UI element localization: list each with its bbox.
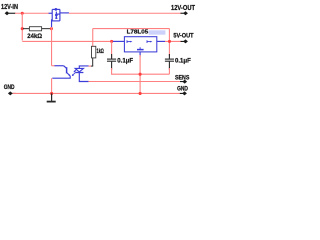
wire C2 bottom to gnd rail bbox=[168, 68, 170, 74]
transistor Q1 bulk dot top bbox=[55, 8, 58, 11]
svg-text:SENS: SENS bbox=[175, 74, 189, 81]
capacitor C2 0.1uF output bbox=[165, 54, 174, 70]
resistor R1 24k body bbox=[29, 27, 41, 31]
collector diagonal bbox=[64, 66, 67, 69]
svg-text:5V-OUT: 5V-OUT bbox=[173, 32, 193, 39]
transistor Q1 bulk arrow up bbox=[55, 16, 58, 19]
light arrow 2 bbox=[73, 73, 75, 75]
svg-text:24kΩ: 24kΩ bbox=[27, 33, 42, 40]
wire vertical to 24k left bbox=[21, 13, 23, 40]
wire top rail right (mosfet to 12V-OUT) bbox=[69, 12, 182, 14]
node junction 5V / C2 bbox=[168, 40, 171, 43]
optocoupler U2 LED bbox=[75, 66, 88, 82]
gate drop lead bbox=[51, 19, 53, 27]
capacitor C1 0.1uF input bbox=[107, 42, 116, 70]
cathode down lead bbox=[79, 73, 88, 82]
optocoupler U2 phototransistor bbox=[52, 66, 70, 78]
ground symbol bbox=[47, 93, 56, 101]
pin 12V-IN diamond bbox=[5, 11, 16, 15]
wire top rail left (12V-IN to mosfet) bbox=[15, 12, 49, 14]
svg-text:L78L05: L78L05 bbox=[127, 30, 149, 36]
pin 5V-OUT diamond bbox=[181, 39, 188, 43]
wire 1k bottom to LED anode bbox=[88, 65, 91, 67]
drain lead bbox=[60, 12, 69, 14]
pin GND left diamond bbox=[8, 91, 16, 95]
resistor R2 1k body bbox=[92, 46, 96, 58]
wire C1 bottom to gnd rail bbox=[112, 68, 170, 74]
IC U1 output pin stub bbox=[157, 40, 165, 42]
cathode bar bbox=[75, 72, 83, 74]
emitter wire down and west bbox=[52, 76, 70, 78]
IC U1 pale highlight box bbox=[149, 30, 166, 34]
anode wire from 1k node bbox=[79, 66, 88, 69]
middle bar bbox=[55, 12, 57, 19]
bottom line bbox=[52, 20, 60, 22]
svg-text:12V-IN: 12V-IN bbox=[1, 2, 18, 11]
emitter arrowhead bbox=[68, 74, 70, 76]
wire drop rail B right to 5V wire / C2 bbox=[168, 29, 170, 56]
node junction gnd rail / IC gnd bbox=[139, 73, 142, 76]
resistor R2 bottom lead bbox=[91, 58, 94, 66]
IC U1 input arrow glyph bbox=[127, 40, 132, 43]
wire 5V output to diamond bbox=[165, 40, 182, 42]
node junction C1 top / IC input bbox=[110, 40, 113, 43]
wire collector horizontal red part bbox=[52, 65, 55, 67]
pin GND right diamond bbox=[180, 91, 187, 95]
transistor Q1 P-MOSFET bbox=[49, 9, 69, 27]
svg-text:1kΩ: 1kΩ bbox=[97, 48, 104, 55]
wire rail B 5V standby, y=28.6 bbox=[93, 29, 170, 56]
node junction 24k left bbox=[21, 27, 24, 30]
svg-text:12V-OUT: 12V-OUT bbox=[171, 3, 195, 12]
right bar bbox=[59, 9, 61, 21]
svg-text:0.1μF: 0.1μF bbox=[175, 58, 191, 65]
IC U1 output arrow glyph bbox=[147, 40, 152, 43]
IC U1 gnd glyph bbox=[137, 47, 144, 49]
IC U1 input pin stub bbox=[113, 40, 125, 42]
svg-text:0.1μF: 0.1μF bbox=[117, 58, 133, 65]
pin SENS diamond bbox=[180, 80, 187, 84]
top loop bbox=[52, 8, 60, 10]
emitter diagonal bbox=[67, 73, 70, 76]
collector wire bbox=[55, 65, 64, 67]
svg-text:GND: GND bbox=[4, 84, 15, 91]
node junction IC gnd/gnd rail bbox=[139, 92, 142, 95]
light arrow 1 bbox=[72, 69, 77, 76]
base bar bbox=[66, 67, 68, 73]
wire emitter return down to gnd bbox=[51, 78, 53, 93]
pin 12V-OUT diamond bbox=[181, 11, 188, 15]
transistor Q1 mid dot bbox=[55, 14, 58, 17]
node junction 12V-IN drop bbox=[21, 12, 24, 15]
wire rail A 12V to regulator input, y=41.4 bbox=[22, 40, 113, 42]
LED triangle bbox=[75, 68, 83, 72]
wire IC gnd vertical bbox=[139, 55, 141, 93]
stub middle to right bbox=[56, 13, 60, 15]
gate bar bbox=[51, 9, 53, 21]
wire drop rail B to 1k top bbox=[92, 29, 94, 47]
source lead from rail bbox=[49, 12, 53, 14]
wire SENS line bbox=[88, 81, 181, 83]
wire bottom gnd rail bbox=[13, 92, 182, 94]
node junction gate/24k right bbox=[50, 27, 53, 30]
wire gate vertical down to opto collector bbox=[51, 27, 53, 66]
resistor R1 24k leads bbox=[23, 28, 51, 30]
svg-text:GND: GND bbox=[177, 86, 188, 93]
IC U1 box bbox=[124, 37, 156, 52]
IC U1 gnd pin stub bbox=[139, 52, 141, 57]
node junction emitter/gnd rail bbox=[50, 92, 53, 95]
